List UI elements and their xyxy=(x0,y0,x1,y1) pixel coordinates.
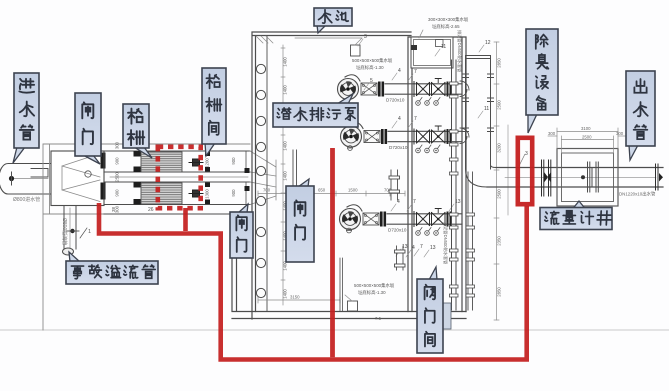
pool horizontal dimension line xyxy=(258,191,405,196)
outlet pipe end flange xyxy=(656,164,664,190)
svg-text:12: 12 xyxy=(485,40,491,46)
label callout shiguyiliuguan (accident overflow pipe) xyxy=(66,252,158,284)
label callout zhamen A (gate) xyxy=(75,93,101,164)
svg-text:1400: 1400 xyxy=(283,289,288,299)
svg-text:2500: 2500 xyxy=(497,189,502,199)
svg-text:300: 300 xyxy=(548,131,556,136)
bar screen (hatched) xyxy=(141,152,182,172)
outlet elbow xyxy=(466,165,497,187)
red highlight: path from gate down xyxy=(97,203,529,360)
svg-text:500×500×500集水坂: 500×500×500集水坂 xyxy=(352,57,393,64)
label callout zhamen C (gate) xyxy=(286,179,314,262)
valve room walls xyxy=(340,37,466,312)
red highlight: screen dashed rectangle xyxy=(158,147,201,208)
red highlight: deodorization rectangle xyxy=(518,138,532,204)
svg-text:Ø800进水管: Ø800进水管 xyxy=(13,196,40,203)
gate valves on discharge pipe xyxy=(414,126,452,144)
screen gate slots left xyxy=(134,151,142,205)
svg-text:2500: 2500 xyxy=(582,135,592,140)
svg-text:11: 11 xyxy=(484,106,489,112)
svg-text:7: 7 xyxy=(414,69,417,75)
inlet pipe xyxy=(0,164,51,195)
red highlight: center vertical line xyxy=(330,148,335,357)
svg-text:址底标高-1.30: 址底标高-1.30 xyxy=(356,64,384,71)
svg-text:1400: 1400 xyxy=(283,171,288,181)
riser pipes xyxy=(450,56,494,311)
label callout liuliangjijing (flow meter well) xyxy=(540,201,612,230)
svg-text:4: 4 xyxy=(398,68,401,74)
label callout qianshuipaiwubeng (submersible sewage pump) xyxy=(273,94,358,127)
flow meter internals xyxy=(581,162,598,192)
label callout geshan (screen) xyxy=(123,104,152,158)
pool top-left hatch corner xyxy=(256,36,273,43)
page bottom border line xyxy=(0,329,669,331)
svg-text:排泥管DN500防水套管: 排泥管DN500防水套管 xyxy=(456,30,463,72)
pool wall circles (columns) xyxy=(256,64,265,297)
svg-text:900: 900 xyxy=(115,189,120,197)
inlet chamber box xyxy=(43,144,250,330)
svg-text:3100: 3100 xyxy=(581,126,591,131)
label callout famenjian (valve room) xyxy=(417,267,443,353)
submersible pump P1 xyxy=(338,75,385,100)
svg-text:1300: 1300 xyxy=(205,189,210,199)
svg-text:1: 1 xyxy=(88,229,91,235)
gate valves on discharge pipe xyxy=(414,209,452,227)
label callout geshanjian (screen room) xyxy=(202,68,226,156)
outlet pipe xyxy=(487,168,663,188)
svg-text:500×500×500集水坂: 500×500×500集水坂 xyxy=(354,282,395,289)
svg-text:2500: 2500 xyxy=(115,172,120,182)
svg-text:3: 3 xyxy=(364,34,367,40)
svg-text:址底标高-2.65: 址底标高-2.65 xyxy=(432,23,460,30)
svg-text:1200: 1200 xyxy=(205,158,210,168)
svg-text:D720x10: D720x10 xyxy=(388,228,407,233)
outlet valve after deodor section xyxy=(542,160,552,196)
leader 3 inside deodor rect xyxy=(519,154,525,166)
mid-channel gate symbols xyxy=(189,159,203,166)
channel end gate marks xyxy=(205,152,210,205)
overflow pipe xyxy=(63,206,88,256)
submersible pump P2 xyxy=(341,122,388,147)
bar screen (hatched) xyxy=(141,183,182,204)
sump pit top-left xyxy=(295,38,362,56)
svg-text:排泥管DN500防水套管: 排泥管DN500防水套管 xyxy=(442,222,449,264)
label callout chushuiguan (outlet pipe) xyxy=(626,71,655,160)
svg-text:300: 300 xyxy=(115,141,120,149)
svg-text:3150: 3150 xyxy=(290,295,300,300)
svg-text:13: 13 xyxy=(430,245,436,251)
pool (water tank) walls xyxy=(232,32,466,319)
svg-text:Ø800溢流管: Ø800溢流管 xyxy=(61,218,68,245)
svg-text:1500: 1500 xyxy=(348,188,358,193)
svg-text:1400: 1400 xyxy=(283,85,288,95)
svg-text:7: 7 xyxy=(414,116,417,122)
gate valves on discharge pipe xyxy=(414,79,452,97)
label callout jinshuiguan (inlet pipe) xyxy=(13,73,39,163)
svg-text:1400: 1400 xyxy=(283,141,288,151)
sump pit bottom xyxy=(345,295,358,311)
svg-text:900: 900 xyxy=(231,157,236,165)
submersible pump P3 xyxy=(340,205,387,230)
screen channel walls xyxy=(104,151,250,214)
svg-text:5: 5 xyxy=(370,78,373,84)
svg-text:2350: 2350 xyxy=(497,236,502,246)
svg-text:2500: 2500 xyxy=(497,100,502,110)
svg-text:2850: 2850 xyxy=(497,58,502,68)
balloon callout numbers xyxy=(392,73,397,80)
svg-text:26: 26 xyxy=(148,207,154,213)
small blue box lower right of valve room xyxy=(438,303,451,329)
label callout zhamen B (gate) xyxy=(230,204,253,258)
svg-text:D720x10: D720x10 xyxy=(389,145,408,150)
svg-text:7.5: 7.5 xyxy=(375,316,382,321)
svg-text:3: 3 xyxy=(525,151,528,157)
svg-text:11: 11 xyxy=(441,44,446,50)
svg-text:DN1220x10出水管: DN1220x10出水管 xyxy=(619,191,656,198)
flange stack in valve room lower xyxy=(389,170,405,270)
svg-text:7: 7 xyxy=(413,199,416,205)
pump discharge pipes xyxy=(385,84,462,224)
svg-text:7: 7 xyxy=(420,244,423,250)
svg-text:300×300×300集水坂: 300×300×300集水坂 xyxy=(428,16,469,23)
chamber exit gates xyxy=(101,153,106,200)
svg-text:1400: 1400 xyxy=(283,57,288,67)
right vertical dimension line xyxy=(494,42,499,320)
svg-text:址底标高-1.30: 址底标高-1.30 xyxy=(358,289,386,296)
svg-text:3200: 3200 xyxy=(497,143,502,153)
svg-text:2850: 2850 xyxy=(497,287,502,297)
svg-text:4: 4 xyxy=(398,116,401,122)
inlet pipe valve xyxy=(9,172,14,185)
svg-text:700: 700 xyxy=(263,188,271,193)
collecting pit box top xyxy=(411,30,453,68)
svg-text:650: 650 xyxy=(318,188,326,193)
flow meter well box xyxy=(557,149,618,207)
svg-text:38: 38 xyxy=(111,206,116,212)
svg-text:D720x10: D720x10 xyxy=(386,98,405,103)
svg-text:900: 900 xyxy=(115,157,120,165)
label callout shuichi (pool) xyxy=(314,8,352,33)
pool vertical dimension line xyxy=(281,45,285,305)
svg-text:4: 4 xyxy=(412,245,415,251)
flow meter dimension lines xyxy=(548,128,626,153)
svg-text:300: 300 xyxy=(616,131,624,136)
pool lower dimension line xyxy=(258,297,340,303)
label callout chouchoushebei (deodorization equipment) xyxy=(526,29,558,133)
svg-text:900: 900 xyxy=(231,189,236,197)
channel exit funnel into pool xyxy=(245,150,297,205)
